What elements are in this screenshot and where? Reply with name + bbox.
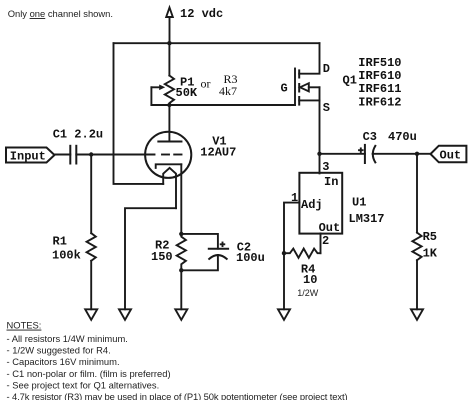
transistor Q1 source tap [299,99,319,101]
capacitor C3 curved plate [373,146,376,163]
wire pin 3 In [319,154,321,174]
transistor Q1 channel segments [298,70,300,77]
svg-text:470u: 470u [388,130,417,144]
potentiometer P1 zigzag [165,76,174,106]
tube V1 heater [163,168,176,208]
terminal Out [431,146,467,163]
ground below R4 node [278,309,290,320]
svg-text:100k: 100k [52,248,81,262]
svg-text:In: In [324,175,338,189]
svg-text:10: 10 [303,273,317,287]
svg-text:R1: R1 [53,235,67,249]
svg-text:- See project text for Q1 alte: - See project text for Q1 alternatives. [7,380,160,391]
transistor Q1 body arrow [309,86,320,88]
op-amp U1 LM317 box [299,173,342,234]
svg-text:G: G [281,82,288,96]
tube V1 grid dashes [162,154,169,156]
wire left 12v drop to heater [114,43,164,184]
resistor R4 [284,249,321,258]
svg-text:- C1 non-polar or film. (film: - C1 non-polar or film. (film is preferr… [7,368,171,379]
svg-text:Out: Out [440,149,462,163]
wire C3 to out node [373,153,417,155]
node R2/C2 bottom [179,268,183,272]
transistor Q1 drain tap [299,43,319,73]
tube V1 plate [158,141,181,143]
svg-text:C1 2.2u: C1 2.2u [53,128,103,142]
node input/R1/grid [89,152,93,156]
terminal Input [6,148,55,163]
resistor R5 [416,154,418,233]
svg-text:IRF612: IRF612 [358,95,401,109]
svg-text:NOTES:: NOTES: [7,320,42,331]
svg-text:1/2W: 1/2W [297,288,319,298]
svg-text:Adj: Adj [301,198,323,212]
svg-text:Out: Out [319,221,341,235]
node Adj/R4/ground [282,251,286,255]
wire plate lead [168,105,170,142]
svg-text:IRF510: IRF510 [358,56,401,70]
svg-text:or: or [201,77,211,91]
svg-text:R5: R5 [423,230,437,244]
svg-text:1: 1 [291,191,298,205]
node C3/Out/R5 [415,152,419,156]
svg-text:S: S [323,101,330,115]
potentiometer P1 lead top [168,43,170,75]
svg-text:IRF610: IRF610 [358,69,401,83]
wire P1 bottom to gate [151,104,295,106]
svg-text:LM317: LM317 [349,212,385,226]
svg-text:- 1/2W suggested for R4.: - 1/2W suggested for R4. [7,345,111,356]
svg-text:100u: 100u [236,251,265,265]
capacitor C3 straight plate [364,145,366,163]
svg-text:3: 3 [322,160,329,174]
wire top rail [114,42,320,44]
wire node to Out terminal [417,153,431,155]
svg-text:U1: U1 [352,196,366,210]
svg-text:- 4.7k resistor (R3) may be us: - 4.7k resistor (R3) may be used in plac… [7,391,348,400]
svg-text:D: D [323,62,330,76]
svg-text:IRF611: IRF611 [358,82,401,96]
capacitor C2 top plate [209,248,228,250]
wire heater to ground [125,208,176,309]
svg-text:12 vdc: 12 vdc [180,7,223,21]
wire pin 1 Adj [284,203,299,254]
ground below R1 [85,309,97,320]
resistor R2 [179,232,183,236]
svg-text:50K: 50K [176,86,198,100]
svg-text:1K: 1K [423,247,438,261]
wire 12vdc to rail [169,17,171,43]
transistor Q1 gate bar [294,69,296,106]
capacitor C2 plus mark [221,243,225,245]
power supply arrow 12 vdc [166,8,173,18]
capacitor C2 curved plate [209,255,227,259]
svg-text:Input: Input [10,149,46,163]
tube V1 cathode [156,164,182,168]
ground below R2 [175,309,187,320]
wire source down to node [319,87,321,154]
svg-text:Q1: Q1 [343,74,357,88]
resistor R1 [90,155,92,234]
capacitor C3 plus mark [359,149,363,151]
capacitor C2 wires [181,234,218,249]
capacitor C1 [69,146,71,164]
wire pin 2 Out [320,233,322,253]
wire input to C1 [55,154,71,156]
ground below heater [119,309,131,320]
wire wiper drop [150,87,152,105]
wire node to C3 [320,153,365,155]
node P1 bottom / plate junction [167,103,171,107]
svg-text:- Capacitors 16V minimum.: - Capacitors 16V minimum. [7,356,120,367]
svg-text:Only one channel shown.: Only one channel shown. [8,8,113,19]
capacitor C2 bottom lead [181,255,218,270]
svg-text:2: 2 [322,234,329,248]
potentiometer P1 wiper arrow [151,86,160,88]
svg-text:- All resistors 1/4W minimum.: - All resistors 1/4W minimum. [7,333,128,344]
node source/C3/LM317 [317,152,321,156]
wire Adj node to ground [283,253,285,309]
svg-text:12AU7: 12AU7 [200,146,236,160]
tube V1 envelope circle [145,132,191,178]
ground below R5 [411,309,423,320]
wire C1 to grid [76,154,154,156]
svg-text:150: 150 [151,250,173,264]
svg-text:C3: C3 [363,130,377,144]
wire cathode drop to R2 [180,164,182,234]
svg-text:4k7: 4k7 [219,84,237,98]
node rail/12vdc junction [167,41,171,45]
